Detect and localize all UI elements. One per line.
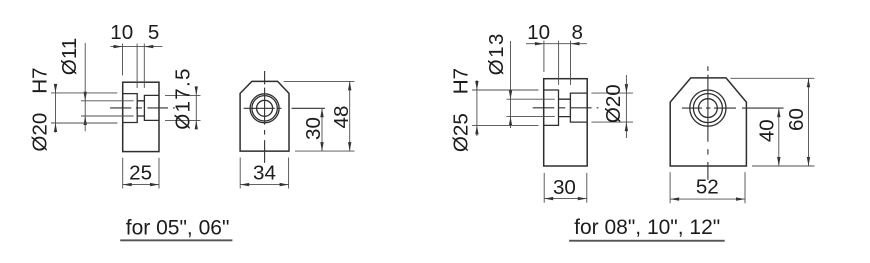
dimension Ø11 (left): [84, 43, 86, 131]
dimension Ø25 H7 (left): [476, 80, 478, 136]
center line side view 2: [533, 107, 599, 109]
svg-text:for 05", 06": for 05", 06": [126, 216, 230, 239]
extension line x=137.1: [136, 44, 138, 89]
bore Ø17.5 (right): [144, 95, 159, 120]
svg-text:5: 5: [148, 21, 159, 44]
circle Ø20: [693, 94, 722, 123]
label Ø20 H7: [29, 67, 52, 151]
extension lines Ø11: [81, 101, 134, 116]
dimension line 10/8 top: [526, 43, 587, 45]
arrow left at 570.5: [571, 42, 580, 45]
extension line x=558.6: [558, 41, 560, 85]
arrow right at 122.5: [114, 45, 123, 48]
arrows Ø20: [54, 84, 57, 93]
svg-text:34: 34: [253, 162, 276, 185]
svg-text:8: 8: [571, 21, 582, 44]
svg-text:30: 30: [302, 117, 325, 140]
extension lines Ø20: [51, 93, 117, 123]
label Ø13: [485, 32, 508, 75]
arrow right at 543.9: [535, 42, 544, 45]
svg-text:Ø13: Ø13: [485, 32, 508, 75]
vertical center line front view 2: [707, 66, 709, 180]
circle Ø20: [250, 94, 279, 123]
dimension 52 (bottom front view 2): [670, 172, 745, 203]
svg-text:30: 30: [553, 176, 576, 199]
svg-text:Ø11: Ø11: [58, 38, 81, 75]
dimension Ø20 H7 (left): [55, 84, 57, 133]
label Ø25 H7: [450, 68, 473, 152]
dimension line 10/5 top: [111, 46, 163, 48]
extension line x=144.3: [143, 44, 145, 89]
center line side view 1: [110, 107, 175, 109]
svg-text:48: 48: [330, 106, 353, 129]
label 48: [330, 106, 353, 129]
label 40: [756, 119, 779, 142]
arrows Ø11: [84, 92, 87, 101]
arrow left at 144.3: [144, 45, 153, 48]
extension line x=543.9: [543, 41, 545, 72]
svg-text:for 08", 10", 12": for 08", 10", 12": [574, 216, 720, 239]
bore Ø25 (left, depth 10): [544, 90, 559, 125]
circle Ø11: [257, 100, 273, 116]
hole Ø11 web section: [137, 101, 144, 116]
arrows Ø25: [475, 81, 478, 90]
arrows Ø13: [509, 90, 512, 99]
extension line x=122.5: [122, 44, 124, 76]
dimension 48 (front view 1): [284, 81, 355, 151]
extension lines Ø20 right: [591, 93, 633, 122]
front view 2 pentagon outline: [670, 78, 746, 166]
caption right underline: [569, 240, 725, 242]
svg-text:Ø17.5: Ø17.5: [172, 67, 195, 130]
front view 1 pentagon outline: [240, 81, 289, 151]
svg-text:52: 52: [696, 176, 719, 199]
dimension 30 (bottom of side view 2): [544, 173, 587, 203]
label Ø11: [58, 38, 81, 75]
dimension Ø17.5 (right of side view): [195, 88, 197, 129]
circle Ø25: [690, 90, 726, 126]
caption left underline: [120, 239, 232, 241]
extension lines Ø17.5: [165, 95, 201, 120]
arrows Ø20 right: [625, 84, 628, 93]
extension lines Ø25: [472, 90, 539, 125]
dimension 30 (front view 1): [321, 108, 323, 151]
svg-text:25: 25: [129, 162, 152, 185]
bore Ø20 (left, depth 10): [123, 94, 138, 123]
label Ø17.5: [172, 67, 195, 130]
dimension 25 (bottom of side view): [123, 158, 159, 189]
hole Ø13 web section: [559, 99, 571, 116]
bore Ø20 (right): [570, 93, 587, 122]
svg-text:40: 40: [756, 119, 779, 142]
svg-text:10: 10: [527, 21, 550, 44]
arrows Ø17.5: [195, 86, 198, 95]
vertical center line front view 1: [264, 71, 266, 163]
svg-text:Ø20: Ø20: [602, 84, 625, 123]
dimension 40 (front view 2): [778, 108, 780, 166]
dimension 34 (bottom front view 1): [240, 158, 288, 189]
dimension Ø20 (right of side view 2): [625, 75, 627, 138]
side view block 2 outline: [544, 79, 588, 166]
side view block outline: [123, 82, 159, 151]
circle Ø13: [699, 99, 718, 118]
circle Ø17.5: [252, 96, 277, 121]
label 60: [785, 108, 808, 131]
label Ø20 right: [602, 84, 625, 123]
svg-text:60: 60: [785, 108, 808, 131]
dimension 60 (front view 2): [731, 78, 815, 166]
extension lines Ø13: [507, 99, 555, 116]
horizontal center line front view 2: [682, 107, 784, 109]
svg-text:10: 10: [110, 21, 133, 44]
dimension Ø13 (left): [510, 41, 512, 128]
label 30: [302, 117, 325, 140]
extension line x=570.5: [570, 41, 572, 85]
horizontal center line front view 1: [244, 107, 325, 109]
